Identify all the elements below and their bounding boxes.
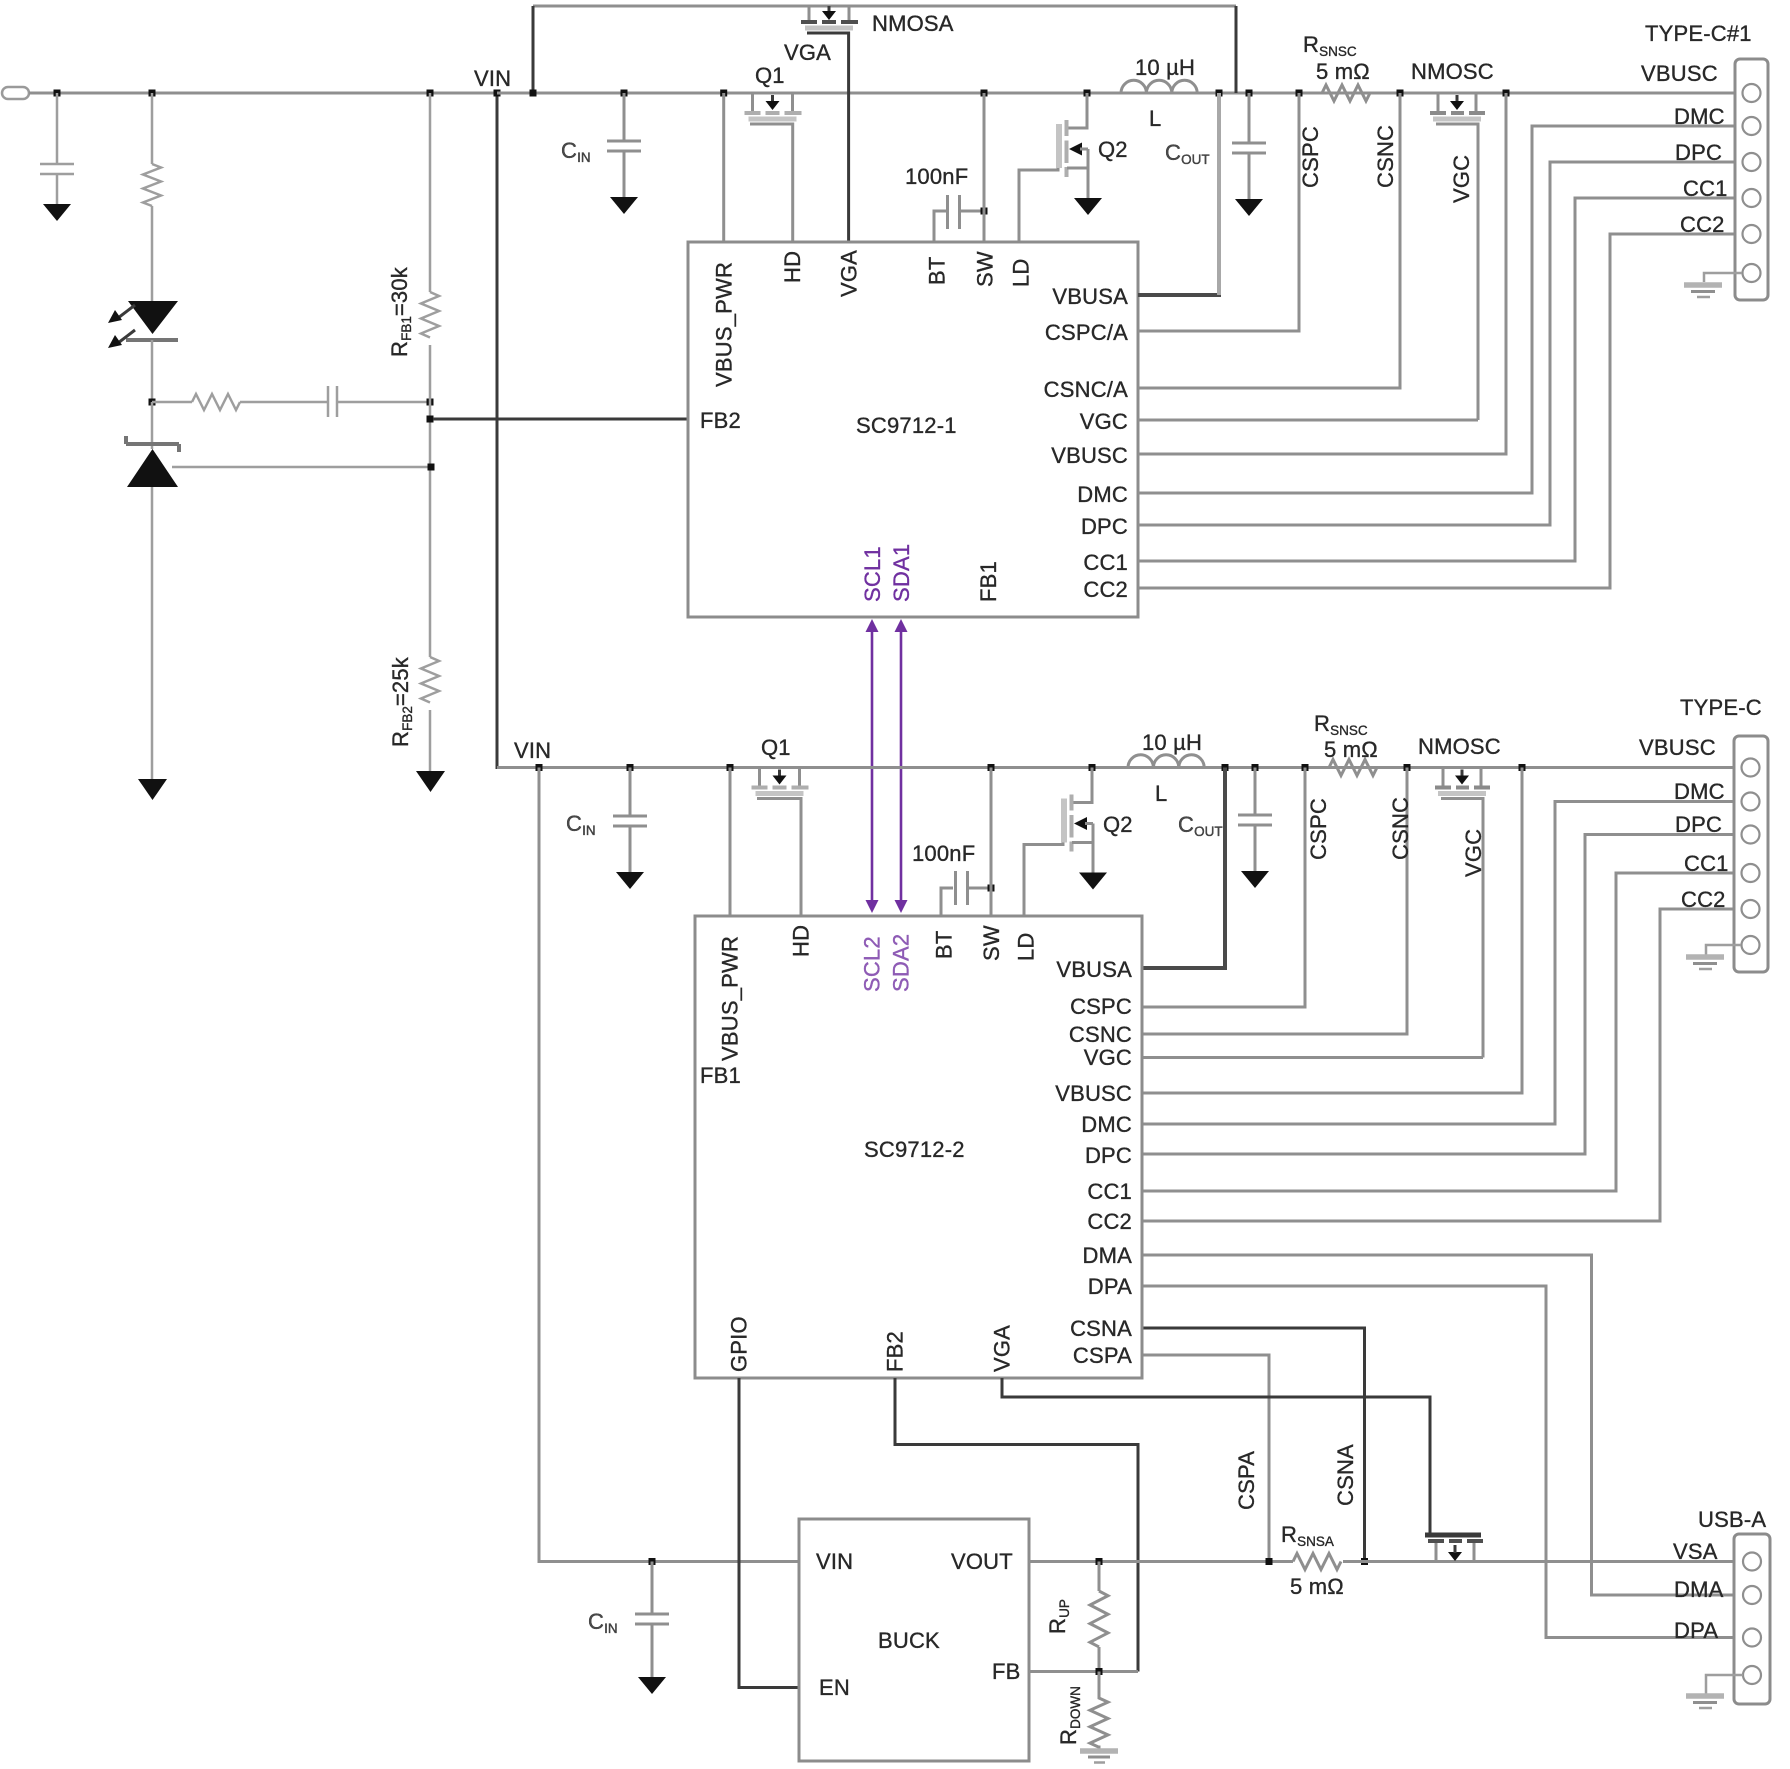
node Q2 drain junction ch1 [1084, 90, 1091, 97]
connector TYPE-C#2 [1734, 736, 1768, 972]
transistor Q1 ch1 [745, 93, 802, 122]
svg-text:CSPC: CSPC [1306, 798, 1331, 860]
wire RUP top [1098, 1562, 1101, 1592]
node CSPC junction ch1 [1296, 90, 1303, 97]
node VBUS_PWR junction ch2 [727, 764, 734, 771]
node VBUS_PWR junction [720, 90, 727, 97]
svg-text:DPC: DPC [1081, 514, 1128, 539]
svg-text:CC2: CC2 [1680, 212, 1725, 237]
pin circle DPC conn1 [1743, 153, 1761, 171]
svg-text:VGC: VGC [1449, 155, 1474, 203]
pin circle DMC conn1 [1743, 117, 1761, 135]
wire VBUS_PWR drop [722, 93, 725, 242]
node R0 junction [149, 90, 156, 97]
svg-text:L: L [1155, 781, 1167, 806]
pin circle GND conn2 [1742, 936, 1760, 954]
wire COUT drop ch1 [1248, 93, 1251, 142]
wire NMOSC gate to VGC net ch1 [1436, 124, 1478, 420]
inductor L ch2 [1128, 755, 1204, 768]
wire FB2 feedback net [895, 1378, 1138, 1672]
svg-text:SC9712-2: SC9712-2 [864, 1137, 965, 1162]
LED D1 [128, 301, 178, 334]
svg-text:DPC: DPC [1675, 812, 1722, 837]
wire cap to FB node [338, 401, 430, 404]
svg-text:DPC: DPC [1085, 1143, 1132, 1168]
svg-text:GPIO: GPIO [727, 1316, 752, 1372]
wire RC to cap [240, 401, 327, 404]
wire GND conn3 [1706, 1675, 1743, 1694]
wire VOUT rail [1029, 1560, 1293, 1563]
wire RFB1 to RFB2 [429, 345, 432, 657]
svg-text:VBUSC: VBUSC [1051, 443, 1128, 468]
arrowhead SCL down [866, 900, 879, 913]
wire CIN1 drop [623, 93, 626, 140]
node CSPA junction [1266, 1558, 1273, 1565]
svg-text:SCL2: SCL2 [860, 936, 885, 992]
ground arrow COUT ch1 [1235, 199, 1263, 216]
arrowhead SCL up [866, 619, 879, 632]
node COUT junction ch1 [1246, 90, 1253, 97]
svg-text:HD: HD [789, 925, 814, 957]
node input-cap junction [54, 90, 61, 97]
capacitor CIN1 [607, 140, 641, 143]
svg-text:CSPA: CSPA [1073, 1343, 1132, 1368]
svg-text:LD: LD [1014, 932, 1039, 961]
svg-text:DMC: DMC [1674, 779, 1725, 804]
node Q2 drain junction ch2 [1089, 764, 1096, 771]
node CIN2 junction [627, 764, 634, 771]
wire NMOSC gate to VGC net ch2 [1441, 799, 1483, 1058]
arrow RFB2 bottom [416, 771, 445, 792]
wire VBUSA riser ch1 [1217, 93, 1221, 295]
node RC junction [149, 399, 156, 406]
node RUP top junction [1096, 1558, 1103, 1565]
svg-text:RFB2=25k: RFB2=25k [388, 656, 415, 747]
transistor NMOSA [801, 6, 858, 31]
svg-text:VBUSC: VBUSC [1639, 735, 1716, 760]
svg-text:RSNSC: RSNSC [1303, 32, 1357, 59]
wire DMC net ch2 [1142, 802, 1734, 1125]
svg-text:VGC: VGC [1084, 1045, 1132, 1070]
node FB junction [1096, 1668, 1103, 1675]
pin circle DPC conn2 [1742, 826, 1760, 844]
svg-text:SDA2: SDA2 [889, 934, 914, 992]
ground earth RDOWN [1098, 1746, 1101, 1750]
svg-text:DMC: DMC [1674, 104, 1725, 129]
wire VIN vertical ch1-ch2 [497, 93, 500, 768]
wire COUT drop ch2 [1254, 768, 1257, 815]
svg-text:DMC: DMC [1081, 1112, 1132, 1137]
wire R0 to LED [151, 206, 154, 301]
capacitor CIN3 [635, 1613, 669, 1616]
input connector J0 [2, 87, 29, 99]
svg-text:VGA: VGA [837, 250, 862, 297]
svg-text:CC1: CC1 [1683, 176, 1728, 201]
svg-text:5 mΩ: 5 mΩ [1324, 737, 1378, 762]
wire CC1 net ch2 [1142, 873, 1734, 1191]
svg-text:RUP: RUP [1045, 1599, 1072, 1634]
capacitor COUT ch2 [1238, 814, 1272, 817]
svg-text:CC1: CC1 [1684, 851, 1729, 876]
svg-text:DPA: DPA [1674, 1618, 1718, 1643]
svg-text:NMOSA: NMOSA [872, 11, 954, 36]
svg-text:FB2: FB2 [700, 408, 741, 433]
ground earth conn2 [1686, 954, 1724, 960]
svg-text:5 mΩ: 5 mΩ [1316, 59, 1370, 84]
svg-text:BT: BT [932, 930, 957, 959]
svg-text:TYPE-C#1: TYPE-C#1 [1645, 21, 1752, 46]
svg-text:RSNSA: RSNSA [1281, 1522, 1334, 1549]
wire top rail drop right [1235, 6, 1238, 93]
wire zener anode down [151, 487, 154, 779]
svg-text:HD: HD [780, 251, 805, 283]
svg-text:VBUSC: VBUSC [1055, 1081, 1132, 1106]
capacitor 100nF ch1 [934, 211, 946, 242]
pin circle VSA conn3 [1743, 1553, 1761, 1571]
wire GPIO to EN [739, 1378, 799, 1688]
svg-text:FB: FB [992, 1659, 1021, 1684]
wire RUP bottom [1098, 1647, 1101, 1672]
wire GND conn2 [1706, 945, 1741, 955]
node VIN riser junction [494, 90, 501, 97]
svg-text:NMOSC: NMOSC [1411, 59, 1494, 84]
svg-text:CSPA: CSPA [1234, 1451, 1259, 1510]
svg-text:CC1: CC1 [1087, 1179, 1132, 1204]
wire VBUSC net ch1 [1138, 93, 1506, 454]
inductor L ch1 [1121, 80, 1197, 93]
svg-text:FB2: FB2 [883, 1331, 908, 1372]
LED emission arrow 1 [118, 305, 135, 318]
ground arrow CIN3 [638, 1677, 666, 1694]
transistor NMOS USB-A switch [1425, 1535, 1483, 1562]
wire CC2 net ch1 [1138, 234, 1735, 588]
arrow negative rail [138, 779, 167, 800]
ground arrow Q2 ch2 [1079, 873, 1107, 890]
pin circle CC2 conn1 [1743, 225, 1761, 243]
resistor RFB1=30k [421, 292, 439, 338]
svg-text:VIN: VIN [514, 738, 551, 763]
wire ch1 VIN rail [497, 92, 1735, 95]
svg-text:CSPC/A: CSPC/A [1045, 320, 1128, 345]
wire CSPC/A net ch1 [1138, 93, 1299, 331]
zener diode DZ [126, 442, 179, 446]
svg-text:BUCK: BUCK [878, 1628, 940, 1653]
wire Q2 gate to LD pin ch2 [1024, 843, 1063, 917]
node FB2 tie [427, 416, 434, 423]
wire SDA bus [900, 629, 903, 903]
svg-text:USB-A: USB-A [1698, 1507, 1766, 1532]
capacitor 100nF ch2 [941, 888, 953, 916]
svg-text:COUT: COUT [1165, 140, 1210, 167]
node BUCK feed junction [536, 764, 543, 771]
wire VIN feed to BUCK [539, 768, 799, 1562]
wire SCL bus [871, 629, 874, 903]
ground arrow CIN2 [616, 872, 644, 889]
svg-text:DPA: DPA [1088, 1274, 1132, 1299]
node SW-BT junction ch2 [988, 885, 995, 892]
block U3 BUCK box [799, 1519, 1029, 1761]
pin circle VBUSC conn2 [1742, 759, 1760, 777]
arrowhead SDA up [895, 619, 908, 632]
wire VBUSA net ch2 [1142, 966, 1227, 970]
capacitor CC in RC branch [327, 386, 330, 417]
wire CSNA net [1142, 1328, 1365, 1562]
wire CSNC/A net ch1 [1138, 93, 1400, 388]
ground arrow Q2 ch1 [1074, 198, 1102, 215]
wire VSA rail [1343, 1560, 1734, 1563]
wire CC1 net ch1 [1138, 198, 1735, 561]
pin circle DMA conn3 [1743, 1586, 1761, 1604]
wire DPA net [1142, 1286, 1734, 1638]
svg-text:BT: BT [925, 256, 950, 285]
svg-text:Q2: Q2 [1098, 137, 1128, 162]
node top riser [530, 90, 537, 97]
wire node to zener [151, 402, 154, 449]
svg-text:TYPE-C: TYPE-C [1680, 695, 1762, 720]
LED emission arrow 2 [118, 330, 135, 343]
svg-text:VGC: VGC [1080, 409, 1128, 434]
resistor RSNSC ch1 [1322, 85, 1370, 101]
resistor RSNSC ch2 [1329, 760, 1377, 776]
capacitor C0 [40, 163, 74, 166]
svg-text:SW: SW [979, 925, 1004, 961]
wire riser to top rail [532, 6, 535, 93]
svg-text:CSNA: CSNA [1070, 1316, 1132, 1341]
svg-text:VBUSC: VBUSC [1641, 61, 1718, 86]
svg-text:RDOWN: RDOWN [1056, 1686, 1083, 1745]
svg-text:SDA1: SDA1 [889, 544, 914, 602]
wire R0 top [151, 93, 154, 164]
wire VBUSC net ch2 [1142, 768, 1522, 1094]
wire VBUSA net ch1 [1138, 293, 1221, 297]
svg-text:CSNA: CSNA [1333, 1444, 1358, 1506]
transistor NMOSC ch2 [1435, 768, 1490, 797]
node CIN3 junction [649, 1558, 656, 1565]
wire DMC net ch1 [1138, 126, 1735, 493]
pin circle DMC conn2 [1742, 793, 1760, 811]
svg-text:LD: LD [1009, 258, 1034, 287]
transistor Q2 ch1 [1056, 93, 1088, 198]
svg-text:VIN: VIN [816, 1549, 853, 1574]
node SW rail junction ch2 [988, 764, 995, 771]
svg-text:SCL1: SCL1 [860, 546, 885, 602]
svg-text:DMA: DMA [1674, 1577, 1724, 1602]
wire VGC net ch1 [1138, 419, 1478, 422]
svg-text:CC2: CC2 [1087, 1209, 1132, 1234]
op-amp U1 SC9712-1 box [688, 242, 1138, 617]
svg-text:CC1: CC1 [1083, 550, 1128, 575]
node COUT junction ch2 [1252, 764, 1259, 771]
svg-text:VGC: VGC [1461, 829, 1486, 877]
pin circle GND conn1 [1743, 264, 1761, 282]
wire CSNC net ch2 [1142, 768, 1407, 1035]
node CSNC junction ch2 [1404, 764, 1411, 771]
ground arrow CIN1 [610, 197, 638, 214]
svg-text:RSNSC: RSNSC [1314, 711, 1368, 738]
node VBUSC junction ch1 [1503, 90, 1510, 97]
wire top bypass rail [533, 5, 1236, 8]
svg-text:CSNC/A: CSNC/A [1044, 377, 1128, 402]
wire SW pin riser ch1 [983, 93, 986, 242]
resistor RFB2=25k [421, 657, 439, 703]
connector TYPE-C#1 [1735, 59, 1768, 300]
pin circle CC2 conn2 [1742, 900, 1760, 918]
node CSNC junction ch1 [1397, 90, 1404, 97]
capacitor COUT ch1 [1232, 142, 1266, 145]
wire RFB2 bottom [429, 710, 432, 771]
wire GND conn1 [1704, 273, 1742, 282]
resistor RSNSA [1293, 1554, 1341, 1570]
wire DPC net ch1 [1138, 162, 1735, 525]
ground arrow COUT ch2 [1241, 871, 1269, 888]
svg-text:VOUT: VOUT [951, 1549, 1013, 1574]
svg-text:CSNC: CSNC [1069, 1022, 1132, 1047]
node FB-RC [427, 399, 434, 406]
pin circle CC1 conn2 [1742, 864, 1760, 882]
resistor RC [152, 401, 192, 404]
svg-text:Q1: Q1 [755, 63, 785, 88]
svg-text:CIN: CIN [566, 811, 596, 838]
svg-text:CIN: CIN [561, 138, 591, 165]
wire DMA net [1142, 1255, 1734, 1595]
svg-text:VBUS_PWR: VBUS_PWR [718, 936, 743, 1061]
wire SW pin riser ch2 [990, 768, 993, 917]
wire FB net [1029, 1670, 1138, 1673]
svg-text:VGA: VGA [990, 1325, 1015, 1372]
svg-text:CSPC: CSPC [1070, 994, 1132, 1019]
wire DPC net ch2 [1142, 835, 1734, 1155]
connector USB-A [1734, 1534, 1770, 1704]
wire VGA to USB switch gate [1002, 1378, 1430, 1533]
svg-text:CIN: CIN [588, 1609, 618, 1636]
wire LED to zener node [151, 340, 154, 402]
svg-text:Q1: Q1 [761, 735, 791, 760]
svg-text:DMA: DMA [1083, 1243, 1133, 1268]
svg-text:CSPC: CSPC [1298, 126, 1323, 188]
wire VBUSA riser ch2 [1223, 768, 1227, 969]
node SW rail junction ch1 [981, 90, 988, 97]
node CSNA junction [1361, 1558, 1368, 1565]
svg-text:CSNC: CSNC [1388, 797, 1413, 860]
svg-text:COUT: COUT [1178, 812, 1223, 839]
wire Q1 gate to HD pin ch2 [757, 799, 801, 917]
ground earth conn3 [1686, 1693, 1724, 1699]
svg-text:CC2: CC2 [1083, 577, 1128, 602]
svg-text:NMOSC: NMOSC [1418, 734, 1501, 759]
node VBUSA riser junction ch2 [1222, 764, 1229, 771]
wire CC2 net ch2 [1142, 909, 1734, 1221]
svg-text:L: L [1149, 106, 1161, 131]
transistor Q2 ch2 [1061, 768, 1093, 873]
svg-text:SC9712-1: SC9712-1 [856, 413, 957, 438]
wire NMOSA gate to VGA pin [807, 33, 849, 242]
ground arrow under C0 [43, 204, 71, 221]
pin circle CC1 conn1 [1743, 189, 1761, 207]
pin circle DPA conn3 [1743, 1629, 1761, 1647]
wire CIN2 drop [629, 768, 632, 816]
svg-text:100nF: 100nF [912, 841, 975, 866]
svg-text:VBUSA: VBUSA [1056, 957, 1132, 982]
svg-text:FB1: FB1 [976, 561, 1001, 602]
wire CSPC net ch2 [1142, 768, 1305, 1008]
capacitor CIN2 [613, 815, 647, 818]
arrowhead SDA down [895, 900, 908, 913]
svg-text:VSA: VSA [1673, 1539, 1718, 1564]
svg-text:RFB1=30k: RFB1=30k [387, 266, 414, 357]
svg-text:5 mΩ: 5 mΩ [1290, 1574, 1344, 1599]
node VBUSC junction ch2 [1519, 764, 1526, 771]
resistor R0 [143, 164, 161, 206]
wire Q2 gate to LD pin ch1 [1019, 168, 1058, 242]
svg-text:CC2: CC2 [1681, 887, 1726, 912]
svg-text:SW: SW [973, 251, 998, 287]
transistor NMOSC ch1 [1430, 93, 1485, 122]
wire CIN3 drop [651, 1562, 654, 1614]
svg-text:VIN: VIN [474, 66, 511, 91]
pin circle GND conn3 [1743, 1666, 1761, 1684]
svg-text:Q2: Q2 [1103, 812, 1133, 837]
resistor RDOWN [1090, 1672, 1108, 1748]
pin circle VBUSC conn1 [1743, 84, 1761, 102]
wire VGC net ch2 [1142, 1056, 1483, 1059]
svg-text:EN: EN [819, 1675, 850, 1700]
wire cap drop [56, 93, 59, 163]
wire CSPA net [1142, 1355, 1269, 1562]
svg-text:10 µH: 10 µH [1142, 730, 1202, 755]
wire zener cathode to FB node [172, 466, 431, 469]
wire input rail [29, 92, 497, 95]
node zener tie [428, 464, 435, 471]
svg-text:DMC: DMC [1077, 482, 1128, 507]
wire VBUS_PWR drop ch2 [729, 768, 732, 917]
svg-text:100nF: 100nF [905, 164, 968, 189]
svg-text:VBUSA: VBUSA [1052, 284, 1128, 309]
wire Q1 gate to HD pin [750, 124, 793, 242]
wire ch2 VIN rail [497, 766, 1734, 769]
node RFB1 top junction [427, 90, 434, 97]
svg-text:10 µH: 10 µH [1135, 55, 1195, 80]
resistor RUP [1090, 1591, 1108, 1647]
wire FB2 net to IC1 [433, 418, 688, 421]
op-amp U2 SC9712-2 box [695, 916, 1142, 1378]
node VBUSA riser junction [1216, 90, 1223, 97]
wire RFB1 top [429, 93, 432, 292]
svg-text:DPC: DPC [1675, 140, 1722, 165]
svg-text:VBUS_PWR: VBUS_PWR [712, 262, 737, 387]
svg-text:CSNC: CSNC [1373, 125, 1398, 188]
node CIN1 junction [621, 90, 628, 97]
svg-text:FB1: FB1 [700, 1063, 741, 1088]
transistor Q1 ch2 [752, 768, 809, 797]
node CSPC junction ch2 [1302, 764, 1309, 771]
svg-text:VGA: VGA [784, 40, 831, 65]
node SW-BT junction ch1 [981, 208, 988, 215]
ground earth conn1 [1684, 282, 1722, 288]
